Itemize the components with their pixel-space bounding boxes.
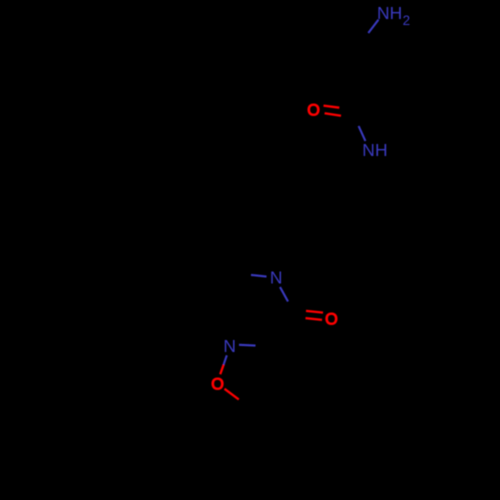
C=O double bond upper red half [324, 106, 340, 108]
svg-text:O: O [325, 310, 338, 328]
svg-text:O: O [211, 375, 224, 393]
svg-text:N: N [223, 336, 236, 356]
C=O double bond upper red half [306, 311, 323, 313]
bond carbonyl C to amide NH (blue half) [359, 126, 366, 141]
bond NH2 to CH2 (blue half) [368, 20, 378, 33]
C=O double bond lower red half [325, 113, 341, 116]
isoxazole N-O bond red half [220, 365, 223, 375]
svg-text:O: O [307, 101, 320, 119]
svg-text:N: N [362, 140, 375, 160]
bond N to carbonyl C (blue half) [280, 287, 288, 302]
C=O double bond lower red half [306, 318, 323, 320]
svg-text:N: N [270, 268, 283, 288]
svg-text:H: H [375, 140, 388, 160]
svg-text:H: H [390, 3, 403, 23]
isoxazole N=C3 bond (blue half) [239, 344, 256, 347]
isoxazole O-C5 bond (red half) [225, 389, 239, 400]
bond N-methyl horizontal (blue half) [251, 275, 267, 277]
isoxazole N-O bond blue half [224, 355, 227, 364]
svg-text:2: 2 [403, 13, 410, 28]
